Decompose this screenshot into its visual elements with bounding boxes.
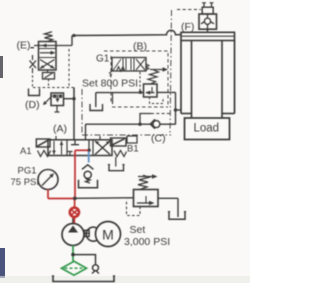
svg-text:Set: Set	[130, 224, 146, 236]
svg-text:(F): (F)	[181, 21, 194, 33]
svg-text:G1: G1	[96, 54, 110, 65]
svg-text:(C): (C)	[151, 133, 166, 145]
svg-text:A1: A1	[20, 146, 32, 157]
svg-text:M: M	[102, 227, 114, 243]
svg-text:Load: Load	[194, 123, 220, 135]
svg-text:Set 800 PSI: Set 800 PSI	[82, 78, 138, 90]
svg-text:(A): (A)	[53, 123, 67, 135]
svg-text:(B): (B)	[133, 41, 147, 53]
svg-text:B1: B1	[127, 144, 139, 155]
svg-text:3,000 PSI: 3,000 PSI	[124, 236, 170, 248]
svg-text:75 PSI: 75 PSI	[11, 177, 40, 188]
svg-text:PG1: PG1	[18, 166, 37, 177]
svg-text:(D): (D)	[25, 99, 40, 111]
svg-text:(E): (E)	[17, 40, 31, 52]
